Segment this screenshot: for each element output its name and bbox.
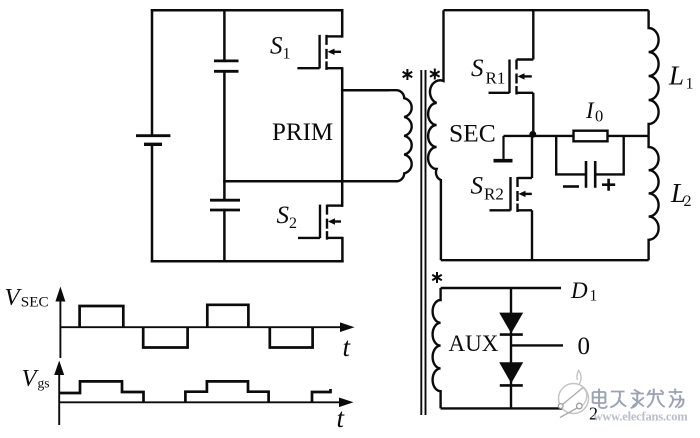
wire SR1 source to node xyxy=(532,93,534,135)
wire aux bottom xyxy=(441,407,584,409)
wire diode branch vertical xyxy=(510,288,512,408)
svg-text:S: S xyxy=(471,55,484,82)
svg-text:2: 2 xyxy=(684,193,692,210)
wire bottom rail secondary xyxy=(441,259,649,261)
transistor SR2 xyxy=(490,177,533,212)
capacitor C2 xyxy=(210,200,240,210)
svg-text:www.elecfans.com: www.elecfans.com xyxy=(594,410,689,424)
transformer core xyxy=(421,70,425,415)
wire aux mid 0 xyxy=(511,344,563,346)
wire bottom rail primary xyxy=(152,260,342,263)
secondary winding SEC xyxy=(428,10,443,260)
capacitor C1 xyxy=(214,61,239,71)
svg-text:1: 1 xyxy=(590,288,598,305)
watermark hanzi xyxy=(593,389,684,409)
svg-text:AUX: AUX xyxy=(449,331,499,356)
wire left battery branch lower xyxy=(151,144,154,261)
svg-text:R1: R1 xyxy=(486,69,506,88)
polarity dot primary xyxy=(403,69,413,80)
svg-text:0: 0 xyxy=(578,333,591,360)
aux winding AUX xyxy=(433,288,441,408)
inductor L2 xyxy=(649,136,659,260)
wire mid rail to primary winding xyxy=(224,180,396,183)
svg-text:1: 1 xyxy=(283,46,291,63)
svg-text:I: I xyxy=(585,98,595,123)
waveform VSEC axis xyxy=(60,295,344,358)
svg-text:PRIM: PRIM xyxy=(272,119,333,146)
watermark logo xyxy=(558,371,588,418)
transistor S1 xyxy=(297,35,342,70)
wire SR2 source vertical xyxy=(531,210,533,260)
diode D1 xyxy=(499,313,523,335)
svg-text:S: S xyxy=(277,202,290,229)
wire SR1 drain vertical xyxy=(532,10,534,59)
polarity dot secondary xyxy=(430,69,440,80)
wire node to SR2 drain xyxy=(531,134,533,178)
svg-text:1: 1 xyxy=(686,76,694,93)
node output junction xyxy=(529,131,536,138)
wire left battery branch upper xyxy=(151,10,154,136)
wire capacitor branch xyxy=(223,10,226,261)
svg-text:2: 2 xyxy=(289,215,297,232)
svg-text:L: L xyxy=(668,61,684,91)
svg-text:S: S xyxy=(471,173,484,200)
wire top rail secondary xyxy=(444,9,649,11)
plus label xyxy=(602,179,615,191)
svg-text:SEC: SEC xyxy=(21,294,49,311)
capacitor Co plates xyxy=(586,161,595,188)
svg-text:0: 0 xyxy=(595,107,603,126)
diode D2 xyxy=(499,362,523,385)
transistor S2 xyxy=(298,205,342,240)
wire output node horizontal xyxy=(504,135,649,137)
ground xyxy=(494,136,513,161)
waveform Vgs axis xyxy=(59,369,344,425)
polarity dot aux xyxy=(432,272,442,283)
wire switch node vertical xyxy=(341,68,344,205)
svg-text:D: D xyxy=(570,278,588,303)
wire top rail primary xyxy=(152,9,342,12)
battery B1 xyxy=(136,136,170,145)
waveform VSEC trace xyxy=(80,305,313,348)
current source I0 box xyxy=(574,131,608,142)
waveform Vgs trace xyxy=(59,381,330,402)
wire aux top xyxy=(441,287,561,289)
svg-text:S: S xyxy=(270,33,283,60)
wire S2 source vertical xyxy=(341,238,344,261)
minus label xyxy=(563,185,579,188)
wire primary top lead xyxy=(342,89,388,92)
wire S1 drain vertical xyxy=(341,10,344,36)
transistor SR1 xyxy=(489,60,534,95)
primary winding PRIM xyxy=(342,90,411,181)
inductor L1 xyxy=(649,10,659,136)
svg-text:SEC: SEC xyxy=(449,119,496,148)
svg-text:R2: R2 xyxy=(484,185,504,204)
output capacitor branch xyxy=(556,136,624,175)
svg-text:gs: gs xyxy=(38,376,50,391)
